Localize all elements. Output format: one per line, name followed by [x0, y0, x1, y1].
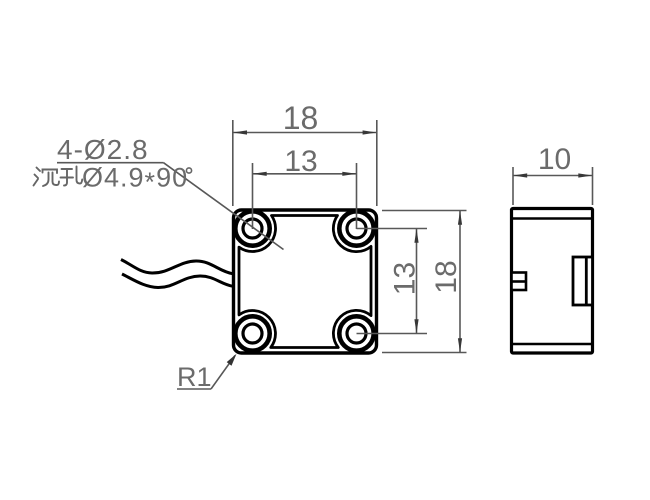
dimension 18 top: right arrow: [363, 130, 377, 134]
leader hole callout: underline: [57, 162, 164, 164]
wire lead 2: [122, 274, 233, 288]
dimension 13 top: right arrow: [342, 172, 356, 176]
hole bottom-left countersink: [235, 316, 269, 350]
leader hole callout: diagonal: [164, 163, 284, 250]
wire lead 1: [121, 260, 233, 274]
hole top-left bore: [243, 219, 262, 238]
dimension 18 right: dimension line: [459, 211, 461, 353]
svg-text:4-Ø2.8: 4-Ø2.8: [57, 134, 149, 165]
front view inner pocket: [239, 216, 371, 348]
dimension 13 top: dimension line: [253, 173, 357, 175]
hole callout text line 2: 沉孔 glyphs (drawn): [34, 167, 83, 187]
leader R1: underline: [177, 388, 211, 390]
hole bottom-left bore: [243, 324, 262, 343]
dimension 18 top: extension lines: [232, 120, 234, 206]
dimension 10 side: dimension line: [513, 175, 593, 177]
svg-text:18: 18: [430, 260, 463, 293]
dimension 13 right: bottom arrow: [414, 319, 418, 333]
side view left notch: [512, 273, 527, 291]
svg-text:18: 18: [283, 100, 319, 136]
side view right connector: [573, 257, 593, 305]
dimension 18 right: bottom arrow: [458, 338, 462, 352]
dimension 18 right: top arrow: [458, 211, 462, 225]
leader R1: diagonal: [211, 356, 235, 390]
dimension 13 top: left arrow: [253, 172, 267, 176]
dimension 18 top: left arrow: [233, 130, 247, 134]
svg-text:13: 13: [284, 145, 317, 178]
side view top cap line: [512, 217, 593, 220]
degree mark: [186, 168, 191, 173]
dimension 10 side: extension lines: [512, 167, 514, 205]
hole top-right countersink: [339, 211, 373, 245]
dimension 13 right: dimension line: [416, 229, 418, 334]
front view body outline: [234, 210, 377, 353]
dimension 10 side: left arrow: [513, 173, 527, 177]
hole top-left countersink: [235, 211, 269, 245]
svg-text:Ø4.9*90: Ø4.9*90: [82, 163, 188, 198]
hole top-right bore: [347, 219, 366, 238]
hole bottom-right bore: [347, 324, 366, 343]
dimension 18 right: extension lines: [382, 210, 467, 212]
leader R1: arrowhead: [227, 354, 237, 366]
dimension 10 side: right arrow: [578, 173, 592, 177]
dimension 13 right: extension lines: [357, 228, 428, 230]
dimension 13 right: top arrow: [414, 229, 418, 243]
hole bottom-right countersink: [339, 316, 373, 350]
side view bottom cap line: [512, 343, 593, 346]
side view body outline: [512, 209, 593, 354]
side view right connector divider: [585, 257, 588, 305]
side view left notch divider: [512, 280, 527, 283]
dimension 13 top: extension lines: [252, 163, 254, 229]
svg-text:R1: R1: [177, 362, 212, 392]
dimension 18 top: dimension line: [233, 132, 377, 134]
svg-text:10: 10: [538, 143, 571, 176]
svg-text:13: 13: [389, 262, 422, 295]
